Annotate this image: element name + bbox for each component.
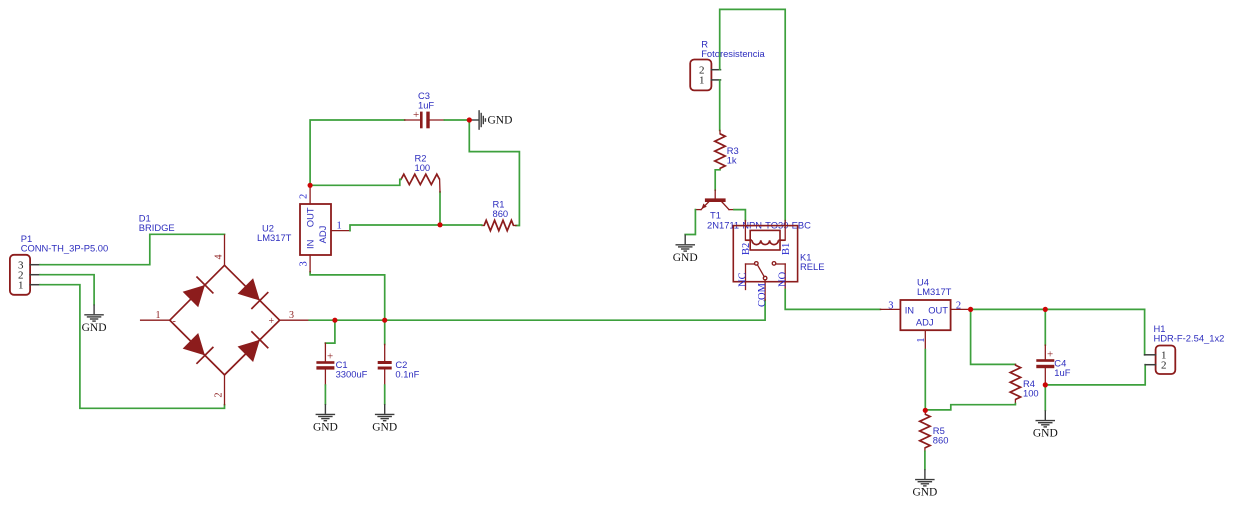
wire R4 to ADJ node — [925, 404, 1015, 410]
svg-text:2: 2 — [1161, 359, 1167, 371]
connector R Fotoresistencia — [690, 38, 765, 90]
ground at P1 — [93, 305, 95, 315]
svg-text:3: 3 — [888, 300, 893, 311]
svg-text:GND: GND — [1033, 428, 1058, 440]
resistor R2 100 — [401, 153, 440, 193]
resistor R3 1k — [715, 130, 739, 169]
wire C3 to GND node — [444, 119, 469, 121]
svg-text:B1: B1 — [781, 243, 792, 255]
svg-text:ADJ: ADJ — [916, 316, 934, 327]
svg-text:Fotoresistencia: Fotoresistencia — [701, 48, 765, 59]
wire U2.ADJ to node — [350, 225, 440, 231]
node junction R1/R2/ADJ — [437, 222, 442, 227]
wire P1.3 to D1.4 — [40, 234, 225, 264]
node junction C2 on rail — [382, 318, 387, 323]
ground at C3 — [469, 119, 478, 121]
svg-text:2: 2 — [956, 300, 961, 311]
svg-text:1k: 1k — [727, 155, 737, 166]
D1 pin 3 — [280, 319, 310, 321]
node junction C4 bottom — [1043, 382, 1048, 387]
svg-text:860: 860 — [493, 208, 509, 219]
bridge D1 body — [170, 265, 280, 375]
svg-text:GND: GND — [372, 421, 397, 433]
wire R2 to U2.OUT node — [310, 179, 401, 185]
svg-text:1: 1 — [699, 74, 705, 86]
svg-text:ADJ: ADJ — [317, 226, 328, 244]
relay K1 pin B2 — [744, 221, 746, 241]
diode D1 lower-left — [182, 332, 213, 363]
svg-text:+: + — [413, 109, 419, 121]
P1 pin 2 stub — [30, 274, 40, 276]
R pin 1 stub — [711, 79, 720, 81]
U2 pin 1 ADJ — [331, 230, 350, 232]
capacitor C2 0.1nF — [378, 344, 420, 385]
wire rail to C2 — [384, 320, 386, 344]
wire U4.OUT down to R4 — [971, 309, 1016, 364]
wire relay NO to U4.IN — [785, 290, 880, 310]
svg-text:GND: GND — [82, 322, 107, 334]
relay K1 coil — [745, 230, 785, 250]
U4 pin 1 ADJ — [924, 330, 926, 349]
wire P1.2 to GND — [40, 275, 94, 305]
node junction U2 OUT — [308, 183, 313, 188]
svg-text:1: 1 — [337, 220, 342, 231]
H1 pin 2 stub — [1145, 364, 1155, 366]
capacitor C1 3300uF — [316, 343, 367, 385]
svg-text:3: 3 — [289, 310, 294, 321]
relay K1 pin COM — [764, 280, 766, 300]
svg-text:2: 2 — [299, 194, 310, 199]
connector P1 — [10, 233, 108, 295]
wire U2.OUT up to C3 — [310, 120, 405, 185]
P1 pin 1 stub — [30, 284, 40, 286]
svg-text:LM317T: LM317T — [257, 232, 292, 243]
wire T1 emitter to ground — [685, 210, 695, 235]
svg-text:GND: GND — [313, 421, 338, 433]
wire R.1 to R3 — [719, 80, 721, 130]
relay K1 pin NO — [784, 264, 786, 290]
wire U4.ADJ down — [924, 350, 926, 411]
wire rail to C4 — [1044, 309, 1046, 345]
relay K1 pin B1 — [784, 221, 786, 241]
node junction C4 top — [1043, 307, 1048, 312]
svg-text:NO: NO — [777, 271, 788, 287]
resistor R4 100 — [1010, 364, 1038, 403]
svg-text:1uF: 1uF — [418, 100, 434, 111]
svg-text:NC: NC — [738, 272, 749, 287]
diode D1 lower-right — [237, 331, 268, 362]
svg-text:100: 100 — [415, 162, 431, 173]
relay K1 contacts — [746, 262, 786, 280]
svg-text:1: 1 — [156, 310, 161, 321]
node junction C1 on rail — [332, 318, 337, 323]
wire C2 to ground — [384, 385, 386, 404]
svg-text:3: 3 — [299, 261, 310, 266]
svg-text:OUT: OUT — [928, 305, 948, 316]
D1 pin 4 — [224, 235, 226, 265]
R pin 2 stub — [711, 69, 720, 71]
node junction ADJ/R4/R5 — [923, 408, 928, 413]
svg-text:100: 100 — [1023, 388, 1039, 399]
U4 pin 2 OUT — [951, 308, 971, 310]
H1 pin 1 stub — [1145, 354, 1156, 356]
node junction U4 OUT — [968, 307, 973, 312]
svg-text:GND: GND — [912, 487, 937, 499]
relay K1 outer box — [733, 226, 797, 282]
svg-text:+: + — [327, 351, 333, 363]
wire C4 to ground — [1044, 385, 1046, 410]
svg-text:B2: B2 — [741, 243, 752, 255]
svg-text:+: + — [269, 316, 275, 327]
svg-text:OUT: OUT — [305, 207, 316, 227]
svg-text:IN: IN — [305, 240, 316, 249]
D1 pin 1 — [141, 319, 170, 321]
wire rail down to H1.1 — [1144, 309, 1146, 354]
diode D1 upper-left — [182, 276, 213, 307]
svg-text:0.1nF: 0.1nF — [395, 369, 419, 380]
ground at T1 — [684, 235, 686, 245]
U2 pin 2 OUT — [309, 185, 311, 204]
svg-text:-: - — [173, 316, 176, 327]
wire R5 to ground — [924, 451, 926, 469]
P1 pin 3 stub — [30, 264, 40, 266]
U4 pin 3 IN — [880, 308, 900, 310]
svg-text:HDR-F-2.54_1x2: HDR-F-2.54_1x2 — [1154, 332, 1225, 343]
D1 pin 2 — [224, 375, 226, 405]
svg-text:4: 4 — [214, 255, 225, 260]
wire R3 to T1 base — [715, 170, 720, 190]
wire GND node to R1 — [469, 120, 519, 226]
svg-text:2: 2 — [214, 393, 225, 398]
wire R.2 top loop to relay B1 — [720, 9, 786, 220]
wire C1 to ground — [324, 385, 326, 404]
wire U2.IN to rail — [310, 272, 385, 320]
svg-text:LM317T: LM317T — [917, 286, 952, 297]
diode D1 upper-right — [237, 278, 268, 309]
wire node up to R2 — [439, 192, 441, 225]
U2 pin 3 IN — [309, 255, 311, 272]
wire main rail to relay COM — [309, 300, 765, 320]
svg-text:COM: COM — [757, 282, 768, 307]
transistor T1 2N1711 — [695, 190, 811, 231]
ground at C2 — [384, 404, 386, 414]
svg-text:BRIDGE: BRIDGE — [139, 222, 175, 233]
node junction C3/GND — [467, 117, 472, 122]
svg-text:CONN-TH_3P-P5.00: CONN-TH_3P-P5.00 — [21, 243, 109, 254]
capacitor C4 1uF — [1036, 345, 1070, 385]
ground at R5 — [924, 469, 926, 479]
svg-text:GND: GND — [673, 252, 698, 264]
wire P1.1 to D1.2 — [40, 285, 225, 409]
svg-text:1uF: 1uF — [1054, 367, 1070, 378]
capacitor C3 1uF — [405, 90, 445, 128]
svg-text:3300uF: 3300uF — [336, 369, 368, 380]
wire C4 to H1.2 — [1045, 365, 1145, 385]
ground at C1 — [324, 404, 326, 414]
regulator U4 LM317T — [900, 276, 951, 330]
regulator U2 LM317T — [257, 204, 331, 255]
wire U4.OUT rail right — [971, 308, 1145, 310]
relay K1 pin NC — [745, 264, 747, 290]
connector H1 — [1154, 323, 1225, 374]
svg-text:860: 860 — [933, 435, 949, 446]
ground at C4 — [1044, 410, 1046, 420]
wire T1 collector to relay B2 — [734, 210, 745, 221]
svg-text:1: 1 — [18, 280, 24, 292]
resistor R5 860 — [920, 410, 949, 451]
wire R1 to node — [440, 224, 482, 226]
svg-text:RELE: RELE — [800, 261, 825, 272]
svg-text:IN: IN — [905, 305, 914, 316]
svg-text:+: + — [1047, 349, 1053, 361]
svg-text:1: 1 — [916, 338, 927, 343]
resistor R1 860 — [482, 198, 516, 230]
wire rail to C1 — [325, 320, 335, 343]
svg-text:GND: GND — [488, 115, 513, 127]
